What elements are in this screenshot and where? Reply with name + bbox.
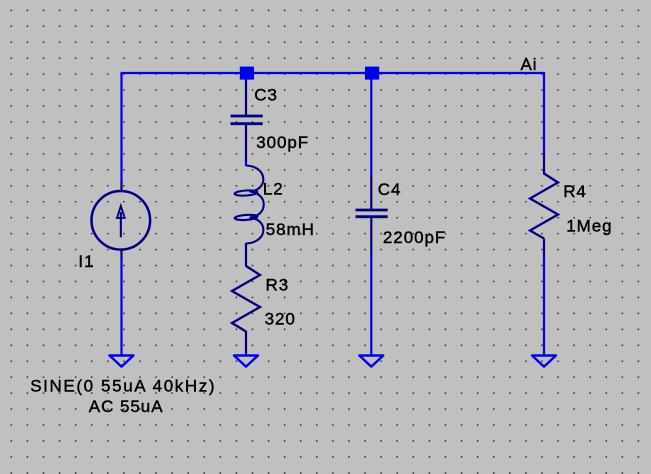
- ground (C4): [359, 356, 383, 367]
- svg-text:Ai: Ai: [521, 55, 538, 74]
- wire: junction to C4: [370, 73, 372, 177]
- wire: C3 to L2: [245, 161, 247, 166]
- lead: R4 bottom pin: [543, 239, 545, 259]
- junction node at C4 branch: [365, 67, 379, 80]
- svg-text:L2: L2: [263, 179, 284, 198]
- svg-text:2200pF: 2200pF: [383, 228, 446, 247]
- lead: R3 bottom pin: [245, 331, 247, 354]
- svg-text:C4: C4: [378, 180, 402, 199]
- svg-text:300pF: 300pF: [256, 133, 309, 152]
- svg-text:SINE(0 55uA 40kHz): SINE(0 55uA 40kHz): [30, 376, 216, 395]
- svg-text:R3: R3: [266, 276, 290, 295]
- resistor R3: [232, 266, 260, 332]
- ground (R3): [234, 356, 258, 367]
- wire: R4 to ground: [543, 257, 545, 356]
- wire: top horizontal bus: [121, 72, 545, 74]
- current source I1 arrow: [120, 212, 122, 237]
- capacitor C3: [231, 116, 263, 124]
- wire: C4 to ground: [370, 253, 372, 356]
- lead: R4 top pin: [543, 154, 545, 175]
- svg-text:320: 320: [265, 310, 296, 329]
- ground (R4): [532, 356, 556, 367]
- wire: right vertical down toward R4: [543, 72, 545, 155]
- wire: R3 to ground: [245, 353, 247, 356]
- lead: I1 bottom pin: [120, 250, 122, 260]
- lead: C4 top pin: [370, 176, 372, 210]
- junction node at C3 branch: [240, 67, 254, 80]
- lead: I1 top pin: [120, 181, 122, 191]
- lead: C3 bottom pin: [245, 124, 247, 162]
- svg-text:R4: R4: [563, 182, 587, 201]
- svg-text:58mH: 58mH: [266, 220, 315, 239]
- svg-text:1Meg: 1Meg: [566, 216, 612, 235]
- svg-text:C3: C3: [254, 86, 278, 105]
- wire: left vertical (top node down toward I1): [120, 73, 122, 182]
- inductor L2: [234, 166, 263, 244]
- resistor R4: [530, 174, 558, 239]
- svg-text:AC 55uA: AC 55uA: [89, 397, 164, 416]
- wire: I1 to ground: [120, 259, 122, 356]
- lead: L2 bottom / R3 top: [245, 243, 247, 267]
- current source I1 circle: [92, 191, 151, 250]
- lead: C4 bottom pin: [370, 217, 372, 254]
- svg-text:I1: I1: [78, 252, 94, 271]
- capacitor C4: [356, 210, 388, 217]
- ground (I1): [110, 356, 134, 367]
- lead: C3 top pin from junction: [245, 73, 247, 116]
